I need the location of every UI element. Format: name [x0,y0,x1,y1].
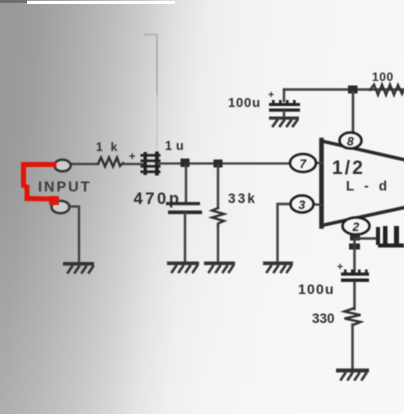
pin 8 [340,133,362,149]
red blob at jack [49,196,59,205]
resistor 100 [370,85,404,96]
faint cropped wire lower [156,95,158,150]
svg-text:INPUT: INPUT [38,180,92,196]
junction node 470p tap [181,159,190,168]
pin 3 [291,196,314,213]
wire 1k to 1u [123,163,144,165]
input jack tip terminal [54,160,70,172]
op-amp left edge reinforce [319,140,324,227]
pin 7 [290,154,316,172]
svg-text:1/2: 1/2 [332,158,365,179]
red input loop wire [24,165,55,200]
capacitor 470p [166,202,200,205]
scan edge artifact white strip [27,1,175,4]
resistor 1k [98,158,123,167]
capacitor 1u (electrolytic) [141,152,161,176]
junction node 33k tap [214,160,223,168]
capacitor 100u (output) [341,270,369,282]
supply rail wire [284,88,404,90]
wire 1u to op-amp pin7 [158,162,292,164]
svg-text:470p: 470p [134,190,182,208]
wire pin3 stub [312,204,321,205]
wire 33k to ground [217,226,219,262]
svg-text:+: + [268,89,274,101]
wire pin3 to ground [278,204,291,262]
svg-text:1k: 1k [96,140,125,154]
input jack sleeve terminal [52,201,70,213]
junction node pin8 rail [348,86,358,94]
junction node pin2 [349,244,360,250]
svg-text:100u: 100u [298,281,335,297]
wire rail down to 100u [283,90,285,102]
svg-text:1u: 1u [165,139,188,153]
wire 470p to ground [184,213,186,262]
ground (33k) [204,262,235,273]
faint cropped wire top [145,35,157,96]
ground (pin3) [263,262,293,273]
scan lightening overlay bottom [0,180,404,414]
wire sleeve to ground [69,207,79,263]
ground (input) [63,262,94,273]
ground (470p) [167,262,199,273]
ground (100u supply) [269,117,299,127]
wire 100u to ground [283,111,285,117]
svg-text:100u: 100u [228,95,261,110]
svg-text:330: 330 [312,311,335,326]
wire input to 1k [70,163,98,165]
wire junction to pin8 [352,92,355,133]
op-amp U (1/2) [322,141,404,226]
wire down to 100u [353,240,356,272]
svg-text:2: 2 [352,220,360,234]
pin 2 [343,218,370,235]
svg-text:100: 100 [372,70,394,84]
svg-text:L - d: L - d [346,179,390,194]
wire junction to 33k [217,165,219,208]
resistor 33k [212,208,224,226]
svg-text:33k: 33k [228,191,257,206]
wire pin7 stub [314,162,322,164]
ground (output) [336,369,369,380]
svg-text:+: + [337,261,343,273]
wire pin2 to output cap [355,237,378,239]
scan edge artifact top-left [0,0,27,3]
svg-text:3: 3 [299,198,306,212]
resistor 330 [345,309,361,326]
wire 100u to 330 [353,282,356,309]
svg-text:+: + [129,151,135,163]
wire 330 to ground [351,325,354,370]
wire pin2 stub [350,235,360,241]
capacitor 100u (supply decoupling) [269,100,300,112]
svg-text:8: 8 [347,135,354,149]
wire junction to 470p [185,166,187,203]
capacitor output (cropped) [376,226,404,248]
